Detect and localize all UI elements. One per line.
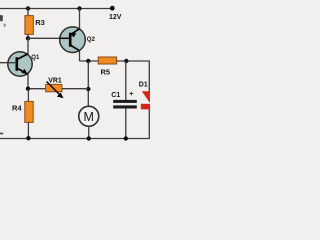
wire R4 bottom lead: [27, 122, 29, 138]
wire R4 top lead: [27, 89, 29, 102]
node junction dot Q2 emitter rail: [77, 6, 81, 10]
svg-text:C1: C1: [111, 92, 120, 99]
wire D1 top lead: [148, 61, 150, 92]
node cut-off text fragment top-left: [0, 15, 6, 27]
node junction dot R3 top: [26, 6, 30, 10]
svg-text:Q1: Q1: [31, 55, 40, 61]
node junction dot motor bottom: [87, 136, 91, 140]
node junction dot C1 top: [124, 59, 128, 63]
capacitor C1: [113, 61, 137, 139]
svg-text:M: M: [84, 110, 94, 124]
node junction dot VR1 right: [86, 87, 90, 91]
motor M1: [79, 106, 99, 126]
transistor Q2: [60, 27, 86, 53]
wire R3 bottom lead: [27, 34, 29, 38]
resistor R3: [25, 16, 33, 35]
transistor Q1: [0, 52, 32, 76]
wire R5 right to edge: [117, 60, 150, 62]
resistor R4: [25, 101, 33, 122]
svg-text:+: +: [129, 91, 133, 98]
wire bottom 0V rail: [0, 138, 150, 140]
svg-text:R5: R5: [101, 68, 111, 77]
node junction dot emitter/R4/VR1: [26, 87, 30, 91]
node junction dot Q1 collector / Q2 base: [26, 36, 30, 40]
node junction dot C1 bottom: [124, 136, 128, 140]
svg-text:R3: R3: [35, 18, 45, 27]
svg-text:R4: R4: [12, 104, 22, 113]
svg-text:Q2: Q2: [87, 37, 96, 43]
node 12V terminal dot: [110, 6, 115, 11]
node junction dot R4 bottom: [26, 136, 30, 140]
node junction dot motor branch: [86, 59, 90, 63]
wire D1 bottom lead: [148, 109, 150, 138]
wire Q1 emitter to VR1: [28, 88, 46, 90]
svg-text:12V: 12V: [109, 14, 122, 21]
wire VR1 to motor branch: [62, 88, 88, 90]
resistor R5: [98, 57, 116, 64]
wire cut-off stub bottom-left: [0, 133, 3, 135]
svg-text:VR1: VR1: [48, 77, 62, 84]
wire Q1 emitter down: [27, 74, 29, 89]
diode D1: [141, 91, 158, 109]
wire mid rail to R5: [80, 60, 99, 62]
svg-text:D1: D1: [139, 82, 148, 89]
wire Q2 emitter up to rail: [79, 9, 81, 29]
wire Q1 collector to Q2 base: [28, 37, 70, 39]
wire top +12V rail: [0, 8, 113, 10]
wire R3 top lead: [27, 9, 29, 17]
wire motor branch vertical: [87, 61, 89, 107]
wire Q1 collector up: [27, 38, 29, 54]
potentiometer VR1: [46, 82, 64, 99]
wire Q2 collector down: [79, 51, 81, 61]
wire motor bottom lead: [88, 126, 90, 138]
